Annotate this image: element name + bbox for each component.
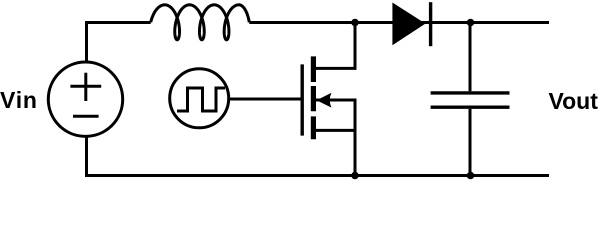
junction dot diode/cap top: [467, 19, 475, 27]
diode D1 anode triangle: [392, 3, 425, 46]
voltage source V1 circle: [48, 62, 122, 136]
svg-text:Vout: Vout: [549, 88, 599, 114]
pulse source square wave: [177, 88, 225, 111]
voltage source minus sign: [73, 115, 99, 118]
transistor M1 body arrow: [317, 93, 332, 108]
transistor M1 body lead and source vertical: [316, 100, 355, 174]
wire capacitor bottom: [469, 109, 472, 176]
transistor M1 gate bar: [301, 64, 304, 135]
junction dot source/bottom: [351, 172, 359, 180]
junction dot cap bottom: [467, 172, 475, 180]
svg-text:Vin: Vin: [0, 87, 38, 113]
wire top rail inductor to diode: [249, 21, 549, 24]
transistor M1 drain lead: [313, 24, 355, 68]
pulse source circle: [170, 69, 229, 128]
capacitor C1 top plate: [431, 91, 510, 94]
inductor L1: [151, 5, 250, 40]
transistor M1 source lead: [313, 129, 355, 132]
diode D1 cathode bar: [429, 2, 432, 46]
capacitor C1 bottom plate: [431, 105, 510, 108]
transistor M1 channel segments: [311, 56, 316, 139]
wire capacitor top: [469, 23, 472, 92]
voltage source plus sign: [70, 73, 101, 101]
wire top rail left segment: [87, 23, 151, 62]
wire gate (pulse source to MOSFET gate): [229, 98, 301, 101]
junction dot drain/top: [351, 19, 359, 27]
wire bottom rail: [87, 137, 550, 176]
